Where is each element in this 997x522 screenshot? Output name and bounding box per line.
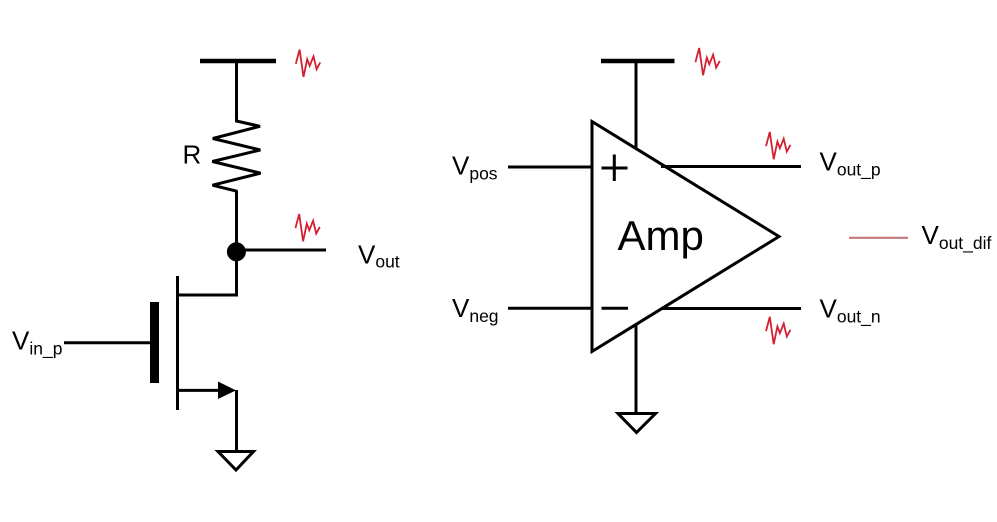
wire: Vout_p output — [661, 165, 801, 168]
svg-text:Vout: Vout — [358, 239, 400, 271]
noise source icon at VDD (left) — [296, 50, 320, 77]
ground (right) — [618, 414, 656, 433]
noise source icon at VDD (right) — [695, 48, 719, 75]
power rail VDD (left) — [200, 59, 276, 64]
resistor R — [212, 120, 260, 192]
svg-text:Vneg: Vneg — [452, 293, 499, 326]
op-amp inverting input marker - — [602, 307, 629, 310]
svg-text:Vout_n: Vout_n — [820, 294, 881, 328]
wire: output node to Vout terminal — [237, 249, 327, 252]
wire: Vin_p to gate — [64, 341, 150, 344]
svg-text:Vout_dif: Vout_dif — [922, 220, 992, 254]
ground (left) — [218, 452, 254, 471]
op-amp non-inverting input marker + — [602, 155, 628, 182]
svg-text:R: R — [183, 139, 202, 169]
svg-text:Amp: Amp — [618, 212, 704, 259]
transistor Q1 (NMOS) — [150, 276, 237, 410]
svg-text:Vout_p: Vout_p — [820, 147, 881, 181]
svg-text:Vin_p: Vin_p — [12, 326, 62, 360]
wire: source to ground — [235, 390, 238, 452]
power rail VDD (right) — [601, 59, 675, 64]
wire: VDD rail to amp — [635, 63, 638, 149]
svg-text:Vpos: Vpos — [452, 151, 498, 184]
noise source icon at Vout_n — [766, 317, 790, 344]
wire: drain to output node — [235, 252, 238, 297]
wire: Vneg input — [508, 307, 592, 310]
wire: amp to ground — [635, 324, 638, 413]
wire: resistor to output node — [235, 191, 238, 252]
net Vout_dif legend line — [849, 237, 908, 239]
op-amp U1 (Amp) triangle body — [592, 122, 779, 352]
node Vout junction dot — [227, 242, 246, 261]
noise source icon at output node — [295, 214, 319, 241]
wire: Vpos input — [508, 166, 592, 169]
noise source icon at Vout_p — [766, 132, 790, 159]
wire: VDD rail to resistor R — [235, 63, 238, 121]
wire: Vout_n output — [661, 307, 801, 310]
